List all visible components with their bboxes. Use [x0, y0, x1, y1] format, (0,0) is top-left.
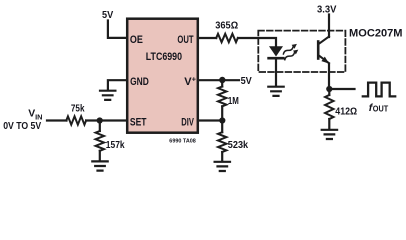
svg-text:0V TO 5V: 0V TO 5V — [3, 121, 41, 132]
wire 5V to OE pin — [108, 21, 127, 38]
wire node to output — [329, 88, 354, 90]
svg-text:OUT: OUT — [373, 105, 388, 114]
svg-text:OUT: OUT — [177, 34, 193, 46]
wire 523k to ground — [221, 152, 223, 161]
wire 75k to SET pin — [86, 119, 126, 121]
resistor 1M — [221, 80, 223, 86]
svg-text:DIV: DIV — [181, 117, 194, 129]
node emitter junction — [326, 86, 332, 92]
phototransistor Q1 — [317, 42, 320, 59]
svg-text:6990 TA08: 6990 TA08 — [169, 138, 196, 144]
svg-text:5V: 5V — [241, 76, 252, 87]
svg-text:412Ω: 412Ω — [335, 106, 357, 117]
wire GND pin to ground — [108, 80, 127, 90]
wire LED cathode to ground — [275, 60, 277, 86]
wire 157k to ground — [99, 151, 101, 161]
wire 365 to LED anode — [238, 38, 276, 46]
svg-text:GND: GND — [130, 76, 149, 88]
resistor 157k — [96, 131, 104, 151]
wire OUT pin to 365 — [198, 37, 216, 39]
optocoupler U2 dashed box — [258, 31, 345, 72]
wire 412 to ground — [328, 119, 330, 129]
ground (LED) — [268, 87, 283, 96]
square wave symbol — [363, 83, 395, 97]
wire DIV pin — [198, 119, 222, 121]
svg-text:LTC6990: LTC6990 — [146, 51, 182, 63]
LED (optocoupler emitter diode) — [269, 46, 283, 56]
ground (GND pin) — [100, 91, 115, 100]
light emission arrows — [283, 47, 293, 54]
resistor 412 ohm — [328, 89, 330, 95]
svg-text:SET: SET — [130, 117, 147, 129]
svg-text:157k: 157k — [106, 140, 125, 151]
svg-text:75k: 75k — [71, 104, 85, 115]
node DIV junction — [219, 117, 225, 123]
svg-text:VIN: VIN — [28, 109, 42, 122]
resistor 75k — [66, 116, 86, 124]
wire emitter down to node — [328, 64, 330, 90]
ground (412) — [322, 130, 337, 139]
svg-text:3.3V: 3.3V — [317, 4, 336, 15]
node V+ junction — [219, 77, 225, 83]
node SET junction — [97, 117, 103, 123]
svg-text:MOC207M: MOC207M — [349, 27, 403, 39]
IC U1 LTC6990 body — [127, 19, 198, 133]
wire VIN to 75k — [47, 119, 67, 121]
svg-text:365Ω: 365Ω — [215, 21, 238, 32]
wire 1M to DIV node — [221, 106, 223, 120]
resistor 365 ohm — [216, 34, 238, 42]
svg-text:523k: 523k — [228, 140, 248, 151]
resistor 523k — [221, 121, 223, 133]
svg-text:1M: 1M — [228, 96, 239, 107]
ground (523k) — [215, 162, 230, 171]
wire V+ pin to 5V label — [198, 79, 239, 81]
wire junction to 157k — [99, 121, 101, 132]
ground (157k) — [92, 161, 107, 170]
wire 3.3V to collector — [328, 15, 330, 38]
svg-text:OE: OE — [130, 34, 143, 46]
